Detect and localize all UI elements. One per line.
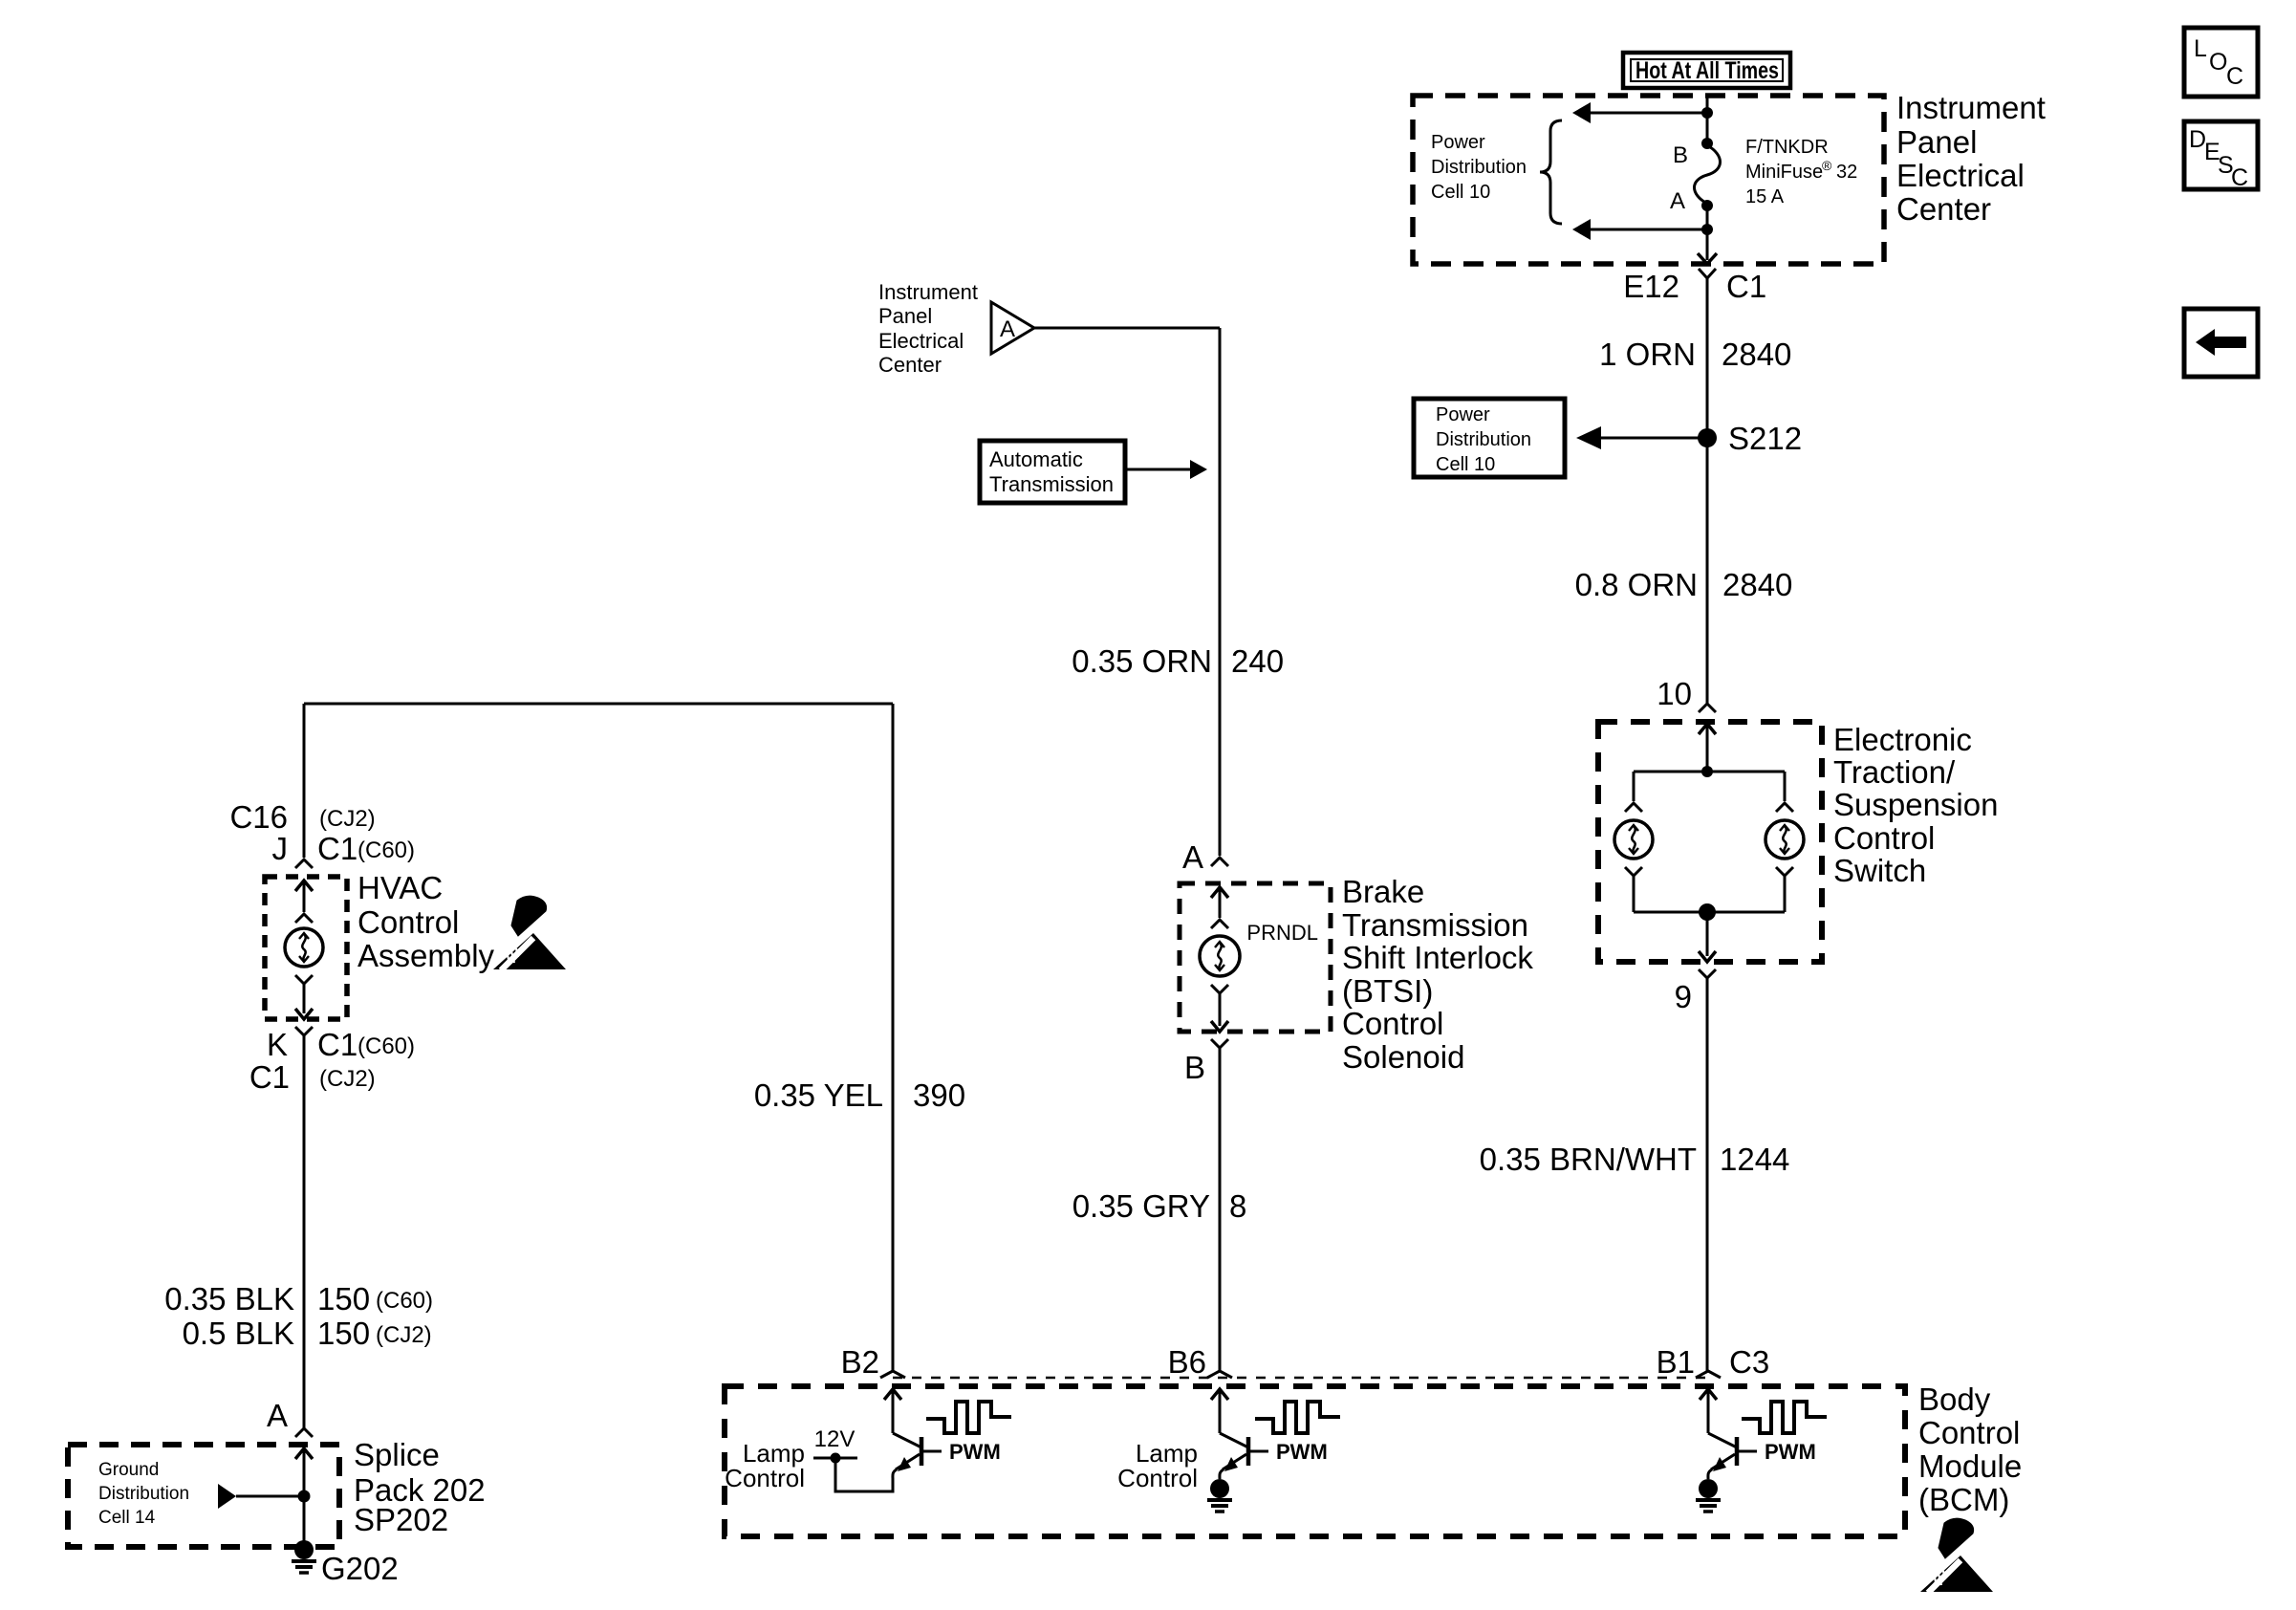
svg-text:PWM: PWM [1765, 1440, 1816, 1464]
svg-text:Control: Control [1342, 1006, 1443, 1041]
svg-text:0.35 BRN/WHT: 0.35 BRN/WHT [1480, 1142, 1697, 1177]
PWM waveform icon B6 [1255, 1402, 1340, 1433]
splice S212 [1698, 421, 1802, 456]
svg-text:C: C [2231, 164, 2248, 191]
fuse value label [1745, 137, 1857, 207]
svg-text:(BCM): (BCM) [1918, 1482, 2009, 1517]
wire 0.35 BRN/WHT 1244 [1706, 978, 1709, 1371]
svg-text:32: 32 [1836, 162, 1857, 183]
connector label C1 (CJ2) [249, 1059, 376, 1095]
svg-text:C1: C1 [317, 1027, 357, 1062]
svg-text:K: K [267, 1027, 288, 1062]
wire HVAC to BCM top run [304, 703, 893, 706]
HVAC lamp feed [295, 881, 313, 923]
Instrument Panel Electrical Center label [1896, 90, 2046, 227]
wire branch bus [1634, 771, 1785, 773]
ESD symbol HVAC [493, 896, 566, 970]
Instrument Panel Electrical Center dashed box [1413, 96, 1884, 264]
svg-text:Brake: Brake [1342, 874, 1424, 909]
svg-text:Switch: Switch [1833, 853, 1926, 888]
svg-text:Electronic: Electronic [1833, 722, 1972, 757]
transistor Q1 (B2 lamp driver) [835, 1371, 942, 1491]
svg-text:B2: B2 [841, 1344, 879, 1380]
svg-text:(BTSI): (BTSI) [1342, 973, 1433, 1009]
Power Distribution Cell 10 box [1414, 399, 1565, 477]
fuse F/TNKDR MiniFuse 32 15 A [1695, 138, 1721, 211]
svg-text:A: A [267, 1398, 288, 1433]
connector pin K C1 (C60) [267, 1027, 415, 1062]
svg-text:Traction/: Traction/ [1833, 754, 1956, 790]
label PRNDL [1246, 921, 1318, 945]
label G202 [321, 1551, 399, 1586]
transistor Q2 (B6 lamp driver) [1207, 1371, 1268, 1512]
Splice Pack 202 dashed box [68, 1445, 339, 1547]
svg-text:C1: C1 [1726, 269, 1766, 304]
svg-text:9: 9 [1675, 979, 1692, 1014]
splice feed wire [295, 1448, 313, 1496]
ground G202 [292, 1540, 316, 1573]
svg-text:0.35 BLK: 0.35 BLK [164, 1281, 294, 1316]
wire 1 ORN 2840 [1706, 278, 1709, 429]
svg-text:(C60): (C60) [357, 838, 415, 863]
svg-text:Hot At All Times: Hot At All Times [1635, 57, 1779, 84]
svg-text:Transmission: Transmission [1342, 907, 1528, 943]
indicator lamp right [1765, 820, 1804, 859]
brace to Power Distribution Cell 10 [1540, 120, 1562, 224]
svg-text:1244: 1244 [1720, 1142, 1789, 1177]
indicator lamp left [1614, 820, 1653, 859]
connector B1 C3 [1657, 1344, 1770, 1380]
svg-text:B: B [1184, 1050, 1205, 1085]
wire 0.35 BLK 150 [303, 1035, 306, 1428]
svg-text:E12: E12 [1623, 269, 1679, 304]
svg-text:Panel: Panel [1896, 124, 1977, 160]
svg-text:Distribution: Distribution [1431, 157, 1527, 178]
label PWM B2 [949, 1440, 1001, 1464]
svg-text:Electrical: Electrical [1896, 158, 2025, 193]
switch output wire [1699, 912, 1716, 962]
label 0.8 ORN 2840 [1575, 567, 1793, 602]
connector chevron J [295, 859, 313, 868]
connector E12 C1 [1623, 269, 1766, 304]
svg-text:(C60): (C60) [376, 1288, 433, 1314]
svg-text:Power: Power [1431, 132, 1485, 153]
connector B6 [1168, 1344, 1206, 1380]
svg-text:Control: Control [1918, 1415, 2020, 1450]
svg-text:Instrument: Instrument [878, 280, 978, 304]
HVAC Control Assembly dashed box [265, 877, 347, 1019]
svg-text:150: 150 [317, 1281, 370, 1316]
wire 0.35 ORN 240 [1034, 328, 1220, 856]
svg-text:Center: Center [878, 353, 942, 377]
BTSI label [1342, 874, 1533, 1075]
label Lamp Control B6 [1117, 1439, 1198, 1492]
left lamp return [1625, 867, 1642, 912]
back-arrow reference box [2184, 309, 2258, 377]
svg-text:(CJ2): (CJ2) [376, 1322, 432, 1348]
svg-text:F/TNKDR: F/TNKDR [1745, 137, 1829, 158]
ESD symbol BCM [1920, 1518, 1993, 1593]
arrow to Power Distribution (A side) [1572, 219, 1707, 240]
svg-text:®: ® [1822, 158, 1832, 173]
svg-text:12V: 12V [814, 1426, 856, 1452]
arrow Automatic Transmission [1125, 460, 1207, 479]
svg-text:O: O [2209, 49, 2227, 76]
wire 0.35 GRY 8 [1219, 1048, 1222, 1371]
svg-text:Splice: Splice [354, 1437, 440, 1472]
wire HVAC feed [303, 704, 306, 858]
Body Control Module label [1918, 1382, 2022, 1517]
wire fuse feed from bus [1701, 96, 1713, 143]
svg-text:8: 8 [1229, 1188, 1246, 1224]
svg-text:C3: C3 [1729, 1344, 1769, 1380]
svg-text:A: A [1000, 316, 1015, 342]
wire to ground [303, 1496, 306, 1542]
svg-text:L: L [2194, 35, 2207, 62]
connector chevron K [295, 1027, 313, 1035]
fuse pin labels B A [1670, 142, 1688, 214]
svg-text:PRNDL: PRNDL [1246, 921, 1318, 945]
PWM waveform icon B1 [1742, 1402, 1827, 1433]
svg-text:Automatic: Automatic [989, 447, 1083, 471]
label Lamp Control B2 [725, 1439, 805, 1492]
Ground Distribution Cell 14 label [98, 1460, 189, 1528]
svg-text:Shift Interlock: Shift Interlock [1342, 940, 1533, 975]
svg-text:Control: Control [1833, 820, 1935, 856]
svg-text:Distribution: Distribution [1436, 429, 1531, 450]
connector B2 [841, 1344, 879, 1380]
HVAC lamp return [295, 975, 313, 1019]
svg-text:Module: Module [1918, 1448, 2022, 1484]
splice junction node [298, 1490, 311, 1503]
12V supply node [813, 1453, 857, 1464]
svg-text:HVAC: HVAC [357, 870, 443, 905]
svg-text:Body: Body [1918, 1382, 1991, 1417]
svg-text:C: C [2226, 63, 2243, 90]
svg-text:0.35 YEL: 0.35 YEL [754, 1077, 883, 1113]
arrow to Power Distribution (B side) [1572, 102, 1707, 123]
svg-text:Control: Control [1117, 1464, 1198, 1492]
connector pin J C1 (C60) [272, 831, 416, 866]
fuse output wire [1698, 206, 1717, 264]
Hot At All Times label box [1623, 53, 1790, 88]
svg-text:Panel: Panel [878, 304, 932, 328]
svg-text:C1: C1 [317, 831, 357, 866]
junction node top [1701, 766, 1713, 777]
svg-text:(C60): (C60) [357, 1033, 415, 1059]
svg-text:0.35 GRY: 0.35 GRY [1072, 1188, 1210, 1224]
connector label C16 (CJ2) [229, 799, 375, 835]
svg-text:MiniFuse: MiniFuse [1745, 162, 1823, 183]
switch feed wire [1699, 724, 1716, 772]
svg-text:(CJ2): (CJ2) [319, 806, 376, 832]
arrow to Power Distribution Cell 10 [1576, 426, 1699, 449]
svg-text:15 A: 15 A [1745, 186, 1785, 207]
svg-text:PWM: PWM [1276, 1440, 1328, 1464]
label 1 ORN 2840 [1599, 337, 1791, 372]
svg-text:B: B [1673, 142, 1688, 168]
svg-text:Control: Control [725, 1464, 805, 1492]
connector pin 10 [1657, 676, 1716, 712]
svg-text:Cell 10: Cell 10 [1436, 454, 1495, 475]
connector pin B [1184, 1039, 1228, 1085]
label 0.35 ORN 240 [1072, 643, 1284, 679]
svg-text:2840: 2840 [1722, 567, 1792, 602]
label 0.35 GRY 8 [1072, 1188, 1247, 1224]
LOC reference box [2184, 28, 2258, 97]
label PWM B6 [1276, 1440, 1328, 1464]
triangle callout A [991, 302, 1034, 354]
svg-text:Electrical: Electrical [878, 329, 964, 353]
svg-text:B6: B6 [1168, 1344, 1206, 1380]
label 0.35 BLK 150 (C60) [164, 1281, 433, 1316]
svg-text:1 ORN: 1 ORN [1599, 337, 1696, 372]
connector pin 9 [1675, 969, 1716, 1014]
svg-text:A: A [1670, 188, 1685, 214]
svg-text:(CJ2): (CJ2) [319, 1066, 376, 1092]
svg-text:Distribution: Distribution [98, 1484, 189, 1504]
wire 0.35 YEL 390 [892, 704, 895, 1371]
svg-text:C1: C1 [249, 1059, 290, 1095]
Electronic Traction/Suspension Control Switch label [1833, 722, 1998, 888]
BCM connector C3 boundary (thin dashed line) [893, 1377, 1708, 1380]
svg-text:Control: Control [357, 904, 459, 940]
transistor Q3 (B1 lamp driver) [1696, 1371, 1757, 1512]
svg-text:Assembly: Assembly [357, 938, 495, 973]
right lamp return [1776, 867, 1793, 912]
svg-text:Instrument: Instrument [1896, 90, 2046, 125]
right lamp feed [1776, 772, 1793, 812]
label 0.5 BLK 150 (CJ2) [183, 1316, 432, 1351]
PWM waveform icon B2 [926, 1402, 1011, 1433]
Brake Transmission Shift Interlock dashed box [1180, 883, 1331, 1032]
svg-text:Solenoid: Solenoid [1342, 1039, 1464, 1075]
label PWM B1 [1765, 1440, 1816, 1464]
label 12V [814, 1426, 856, 1452]
svg-text:390: 390 [913, 1077, 965, 1113]
Automatic Transmission box [980, 441, 1125, 503]
svg-text:10: 10 [1657, 676, 1692, 711]
Instrument Panel Electrical Center callout label [878, 280, 978, 377]
svg-text:0.8 ORN: 0.8 ORN [1575, 567, 1698, 602]
svg-text:Suspension: Suspension [1833, 787, 1998, 822]
svg-text:C16: C16 [229, 799, 288, 835]
svg-text:Ground: Ground [98, 1460, 159, 1480]
svg-text:Cell 10: Cell 10 [1431, 182, 1490, 203]
Power Distribution Cell 10 label (fuse block) [1431, 132, 1527, 203]
connector pin A [1182, 839, 1228, 875]
svg-text:J: J [272, 831, 289, 866]
arrow from Ground Distribution [218, 1484, 304, 1509]
solenoid return wire [1211, 985, 1228, 1032]
HVAC Control Assembly label [357, 870, 495, 973]
label 0.35 YEL 390 [754, 1077, 965, 1113]
svg-text:PWM: PWM [949, 1440, 1001, 1464]
svg-text:Cell 14: Cell 14 [98, 1508, 156, 1528]
svg-text:240: 240 [1231, 643, 1284, 679]
Splice Pack SP202 label [354, 1437, 486, 1537]
svg-text:150: 150 [317, 1316, 370, 1351]
left lamp feed [1625, 772, 1642, 812]
svg-text:SP202: SP202 [354, 1502, 448, 1537]
Electronic Traction/Suspension Control Switch dashed box [1598, 722, 1822, 962]
PRNDL lamp [1200, 936, 1240, 976]
HVAC illumination lamp [285, 928, 323, 967]
solenoid feed wire [1211, 887, 1228, 928]
connector pin A ground [267, 1398, 313, 1437]
svg-text:G202: G202 [321, 1551, 399, 1586]
Body Control Module dashed box [725, 1386, 1905, 1536]
svg-text:0.5 BLK: 0.5 BLK [183, 1316, 294, 1351]
svg-text:Transmission: Transmission [989, 472, 1114, 496]
wire 0.8 ORN 2840 [1706, 438, 1709, 704]
svg-text:B1: B1 [1657, 1344, 1695, 1380]
svg-text:S212: S212 [1728, 421, 1802, 456]
svg-text:0.35 ORN: 0.35 ORN [1072, 643, 1212, 679]
DESC reference box [2184, 121, 2258, 191]
svg-text:2840: 2840 [1722, 337, 1791, 372]
label 0.35 BRN/WHT 1244 [1480, 1142, 1790, 1177]
svg-text:Center: Center [1896, 191, 1991, 227]
svg-text:A: A [1182, 839, 1203, 875]
svg-text:Power: Power [1436, 404, 1490, 425]
junction node bottom [1634, 903, 1785, 921]
